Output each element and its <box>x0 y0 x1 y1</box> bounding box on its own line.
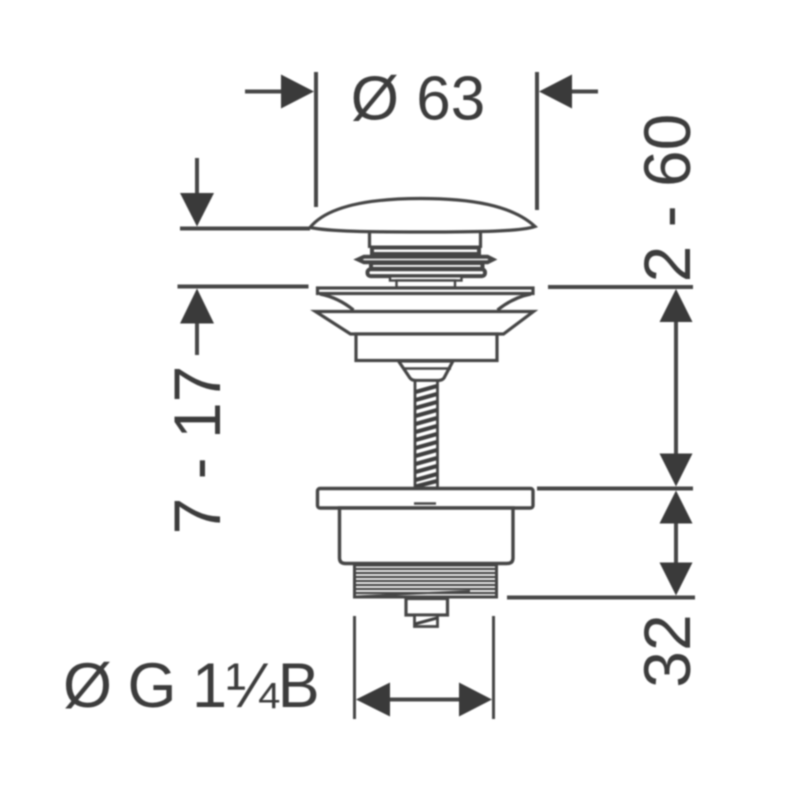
svg-text:2 - 60: 2 - 60 <box>630 114 704 283</box>
svg-text:Ø 63: Ø 63 <box>351 65 485 134</box>
svg-text:Ø G 1¼B: Ø G 1¼B <box>63 651 319 721</box>
svg-text:32: 32 <box>630 614 704 687</box>
svg-text:7 - 17: 7 - 17 <box>160 366 234 535</box>
